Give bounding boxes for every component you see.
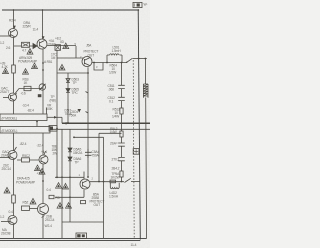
diode D505 bbox=[66, 89, 70, 93]
svg-text:2T0.2: 2T0.2 bbox=[112, 158, 120, 162]
svg-text:1/2W: 1/2W bbox=[109, 71, 117, 75]
diode D503 bbox=[66, 79, 70, 83]
node dot x70 y177 bbox=[69, 176, 71, 178]
svg-text:R5: R5 bbox=[56, 196, 60, 200]
transistor Q508 bottom big bbox=[38, 204, 49, 215]
arrow into Q502 bbox=[42, 36, 45, 39]
wire y177 horizontal bbox=[55, 176, 84, 178]
warning triangle mid b bbox=[23, 69, 29, 75]
capacitor C514 bbox=[118, 158, 125, 161]
diode D515 on x70 bbox=[68, 148, 72, 152]
wire stub x46 into box1 bbox=[46, 108, 48, 115]
warning triangle bottom-left bbox=[4, 187, 10, 193]
svg-text:(E MODEL): (E MODEL) bbox=[2, 129, 18, 133]
pin case box Q504 bbox=[94, 63, 103, 71]
svg-text:1/4W: 1/4W bbox=[110, 130, 118, 134]
tick mark x88 y112 bbox=[86, 112, 89, 114]
node dot x99 y181.5 bbox=[98, 181, 100, 183]
resistor box on y88.5 wire bbox=[24, 86, 31, 90]
transistor Q502 bbox=[37, 39, 47, 49]
wire y208.5 into Q508 bbox=[30, 208, 38, 210]
wire x43 below Q502 bbox=[42, 49, 44, 114]
model option box 2 bbox=[0, 127, 50, 134]
resistor blob on y181 line bbox=[110, 180, 116, 183]
node dot x88 y73 bbox=[87, 72, 89, 74]
wire bottom bus bbox=[0, 237, 147, 239]
node dot x139 y58.5 bbox=[138, 58, 140, 60]
node dot x145.7 y58.5 bbox=[145, 58, 147, 60]
svg-text:R2-4: R2-4 bbox=[9, 19, 16, 23]
svg-text:750A: 750A bbox=[65, 112, 73, 116]
resistor R512 bbox=[120, 108, 123, 114]
wire x70 mid column bbox=[69, 129, 71, 222]
svg-text:2SA9: 2SA9 bbox=[48, 43, 56, 47]
svg-text:15K2A: 15K2A bbox=[73, 151, 83, 155]
svg-text:-0.6: -0.6 bbox=[21, 92, 26, 96]
wire x62 corner into bus bbox=[61, 117, 63, 123]
svg-text:2SC98: 2SC98 bbox=[1, 232, 11, 236]
wire base feed Q503 bbox=[3, 97, 9, 99]
wire x68 diode column bbox=[67, 73, 69, 123]
svg-text:(P MODEL): (P MODEL) bbox=[2, 116, 18, 120]
arrow into Q501 bbox=[13, 26, 16, 29]
relay coil RY501 bbox=[143, 84, 148, 96]
bus thick y123.3 bbox=[62, 122, 150, 124]
svg-text:1.2: 1.2 bbox=[0, 41, 4, 45]
wire y117 from box1 bbox=[47, 116, 62, 118]
svg-text:(NB): (NB) bbox=[50, 99, 56, 103]
resistor R513 bbox=[120, 131, 123, 137]
arrowhead on y117 bbox=[54, 116, 57, 119]
wire top bus bbox=[2, 9, 138, 11]
transistor Q509 protect bbox=[80, 179, 90, 189]
wire bottom bus lower bbox=[0, 240, 140, 242]
wire y133 protect bracket upper bbox=[99, 132, 122, 134]
wire Q507 emitter to bottom bus bbox=[13, 225, 15, 239]
wire x145.7 right column bbox=[145, 59, 146, 239]
svg-text:A R51: A R51 bbox=[44, 60, 53, 64]
resistor R on x13.5 bbox=[12, 65, 16, 73]
warning triangle mid c bbox=[32, 63, 38, 69]
wire right bus bbox=[138, 10, 140, 240]
svg-text:0.1: 0.1 bbox=[109, 100, 113, 104]
resistor on x13.5 lower bbox=[12, 195, 16, 203]
svg-text:1.5mH: 1.5mH bbox=[112, 49, 122, 53]
wire y137 protect bracket lower bbox=[74, 136, 104, 138]
transistor Q504 output bbox=[82, 57, 92, 67]
resistor box MPC on y46 bbox=[22, 42, 30, 47]
svg-text:750A: 750A bbox=[92, 154, 100, 158]
svg-text:-22.4: -22.4 bbox=[37, 144, 44, 148]
warning triangle pair y203 b bbox=[66, 203, 72, 209]
wire x88 emitter column bbox=[87, 67, 89, 177]
warning triangle below MPC bbox=[27, 49, 33, 55]
node junction x43 y63 bbox=[42, 62, 44, 64]
svg-text:OUT: OUT bbox=[94, 203, 101, 207]
warning triangle pair y203 a bbox=[57, 203, 63, 209]
wire Q509 emitter down bbox=[83, 190, 85, 198]
wire y181.5 to right bus bbox=[131, 181, 140, 183]
node dot x103.5 y181.5 bbox=[103, 181, 105, 183]
node dot x74 y137 bbox=[73, 136, 75, 138]
svg-text:2.6: 2.6 bbox=[6, 46, 10, 50]
inductor L501 coil bbox=[110, 54, 120, 55]
svg-text:POWER AMP: POWER AMP bbox=[18, 59, 38, 63]
svg-text:W-: W- bbox=[144, 2, 148, 6]
warning triangle pair y183 a bbox=[56, 183, 62, 189]
wire below Q506 bbox=[42, 164, 44, 204]
wire to Q507 bbox=[13, 203, 15, 216]
node dot x121.5 y181.5 bbox=[121, 181, 123, 183]
arrow mark on x43 y216 bbox=[42, 216, 45, 218]
warning triangle left a bbox=[3, 68, 9, 74]
warning triangle near R518 bbox=[63, 43, 69, 49]
node junction x43 y181 bbox=[42, 180, 44, 182]
node dot x107 bbox=[106, 62, 108, 64]
svg-text:2SA77: 2SA77 bbox=[0, 90, 9, 94]
svg-text:100K: 100K bbox=[46, 107, 54, 111]
wire x62 mid column bbox=[61, 129, 63, 238]
diode on y46 bbox=[33, 44, 37, 49]
wire y197 horizontal bbox=[55, 196, 84, 198]
wire x99 bracket drop bbox=[98, 133, 100, 181]
warning triangle mid-left pair b bbox=[39, 169, 45, 175]
svg-text:-10.4: -10.4 bbox=[22, 104, 29, 108]
connector block small dark bbox=[49, 126, 57, 132]
node blob x39 y95 bbox=[38, 94, 42, 97]
wire y222 horizontal bbox=[62, 221, 104, 223]
wire x57 column bbox=[56, 50, 58, 177]
small comp near 0.4 bbox=[49, 195, 54, 198]
wire ladder column x121.5 bbox=[121, 63, 123, 182]
wire left column vertical x13.5 upper bbox=[13, 10, 15, 114]
wire base line y58 bbox=[57, 57, 83, 59]
wire output line y62.5 bbox=[92, 62, 127, 64]
svg-text:0.4: 0.4 bbox=[9, 210, 13, 214]
node dot top bus x13.5 bbox=[13, 9, 15, 11]
node dot x62 y177 bbox=[61, 176, 63, 178]
svg-text:2B4.2: 2B4.2 bbox=[112, 167, 120, 171]
wire x37 between boxes bbox=[36, 121, 38, 127]
node junction x43 y70 bbox=[42, 69, 44, 71]
arrowhead on thick bus bbox=[63, 122, 66, 125]
wire x76 drop to base line bbox=[75, 46, 77, 58]
inductor L501 bypass loop bbox=[107, 55, 122, 63]
wire y88.5 horizontal bbox=[19, 88, 43, 90]
warning triangle mid-left pair bbox=[35, 165, 41, 171]
wire Q509 to y181.5 line bbox=[90, 181, 124, 183]
svg-text:1K/2W: 1K/2W bbox=[111, 176, 121, 180]
svg-text:11-4: 11-4 bbox=[131, 243, 137, 247]
svg-text:TPC: TPC bbox=[72, 91, 79, 95]
svg-text:-82.4: -82.4 bbox=[27, 109, 34, 113]
wire base feed Q507 bbox=[1, 221, 10, 223]
svg-text:4.7: 4.7 bbox=[22, 49, 26, 53]
capacitor C513 bbox=[118, 143, 125, 146]
relay contact SW1 bbox=[127, 58, 133, 62]
warning triangle emitter area bbox=[59, 64, 65, 70]
wire x42.5 from top bus bbox=[42, 10, 44, 39]
bus y129 bbox=[50, 128, 150, 130]
wire Q502 collector right y46 bbox=[47, 45, 76, 47]
wire emitter line y73 bbox=[57, 72, 88, 74]
svg-text:W2-4: W2-4 bbox=[45, 224, 53, 228]
warning triangle pair y183 b bbox=[63, 183, 69, 189]
model option box 1 bbox=[0, 114, 47, 121]
capacitor C512 bbox=[118, 97, 125, 100]
node dot x70 y197 bbox=[69, 196, 71, 198]
svg-text:2SC14: 2SC14 bbox=[2, 167, 12, 171]
svg-text:1.2: 1.2 bbox=[0, 215, 4, 219]
wire x84 into Q509 base bbox=[83, 172, 85, 180]
svg-text:OUT: OUT bbox=[88, 54, 95, 58]
svg-text:1.5mH: 1.5mH bbox=[109, 195, 119, 199]
transistor Q505 mid-left bbox=[13, 133, 15, 151]
svg-text:+1B: +1B bbox=[37, 172, 43, 176]
diode D517 on y117 label row bbox=[78, 109, 82, 113]
svg-text:2SA=: 2SA= bbox=[110, 142, 118, 146]
node dot x88 y177 bbox=[87, 176, 89, 178]
capacitor C504 on x88 bbox=[85, 149, 92, 158]
svg-text:0.4: 0.4 bbox=[47, 188, 51, 192]
wire base feed Q501 bbox=[0, 35, 11, 37]
wire base feed Q505 bbox=[0, 157, 10, 159]
resistor feeding Q508 base bbox=[22, 206, 30, 210]
svg-text:11.4: 11.4 bbox=[33, 28, 39, 32]
arrow into Q506 top bbox=[44, 151, 46, 155]
resistor TP515 bbox=[120, 171, 123, 177]
svg-text:+1.4: +1.4 bbox=[41, 150, 47, 154]
tick mark x88 y92 bbox=[86, 92, 89, 94]
svg-text:2SA12: 2SA12 bbox=[1, 154, 10, 158]
svg-text:2SC14: 2SC14 bbox=[45, 218, 55, 222]
test point box right mid bbox=[133, 149, 139, 155]
inductor L4D2 bypass loop bbox=[110, 183, 119, 188]
capacitor C511 bbox=[118, 85, 125, 88]
small comp w5a4 bbox=[81, 201, 86, 204]
arrow into Q505 bbox=[14, 147, 17, 151]
transistor Q507 bottom-left bbox=[8, 216, 17, 225]
transistor Q506 center bbox=[39, 155, 48, 164]
diode D516 on x70 bbox=[68, 157, 72, 161]
svg-text:.068: .068 bbox=[108, 88, 114, 92]
wire x103.5 bracket drop bbox=[103, 137, 105, 238]
warning triangle near R520 bbox=[30, 198, 36, 204]
svg-text:R5Z: R5Z bbox=[23, 201, 29, 205]
node dot x68 y122.8 bbox=[67, 122, 69, 124]
resistor R5C2 on y160 wire bbox=[17, 159, 39, 161]
relay contact SW2 bbox=[125, 178, 131, 182]
svg-text:POWER AMP: POWER AMP bbox=[16, 181, 36, 185]
node dot top bus x139 bbox=[137, 9, 139, 11]
mechanical link dashed x133.5 bbox=[133, 60, 134, 238]
wire y58.5 to right bbox=[133, 58, 147, 60]
component box node B bbox=[55, 45, 61, 51]
wire below Q505 bbox=[13, 160, 15, 196]
svg-text:R5C2: R5C2 bbox=[22, 154, 30, 158]
wire Q508 emitter to bottom bus bbox=[42, 215, 44, 239]
svg-text:1/4W: 1/4W bbox=[112, 115, 120, 119]
svg-text:225/R: 225/R bbox=[23, 25, 32, 29]
varistor circle on x43 bbox=[39, 84, 45, 90]
node dot x121.5 bbox=[121, 62, 123, 64]
svg-text:4.7K: 4.7K bbox=[2, 65, 9, 69]
connector box bottom bbox=[76, 233, 87, 239]
top right connector box bbox=[133, 2, 142, 7]
transistor Q501 top-left bbox=[9, 29, 18, 38]
node dot x57 y128.5 bbox=[56, 128, 58, 130]
wire into Q503 with arrow bbox=[15, 89, 19, 94]
svg-text:-82.4: -82.4 bbox=[20, 142, 27, 146]
transistor Q503 bbox=[9, 93, 17, 101]
wire x43 below box2 bbox=[42, 133, 44, 155]
wire y46 left segment into Q502 bbox=[14, 45, 37, 47]
